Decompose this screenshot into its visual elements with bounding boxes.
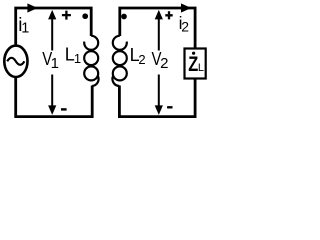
AC source V1 (sine generator) <box>4 46 27 77</box>
inductor L2 (3 turns) <box>112 36 126 86</box>
svg-text:1: 1 <box>74 51 81 66</box>
label V1 <box>42 48 59 72</box>
voltage arrow V1 (up head, shaft, down head) <box>48 10 56 115</box>
label i1 <box>18 15 29 37</box>
polarity dot (primary) <box>82 13 88 19</box>
label L1 <box>65 44 81 66</box>
plus sign (V2) <box>165 11 172 19</box>
load impedance ZL box <box>185 49 206 79</box>
label V2 <box>152 48 169 72</box>
inductor L1 (3 turns) <box>84 36 98 86</box>
wire: primary loop top-left (left wire upper + top wire + drop to L1) <box>16 8 92 45</box>
svg-text:L: L <box>198 62 204 74</box>
wire: secondary loop top (drop from L2 corner + top wire + right wire to load) <box>120 8 195 49</box>
current arrow i1 on top wire <box>27 3 37 12</box>
voltage arrow V2 <box>155 10 163 115</box>
polarity dot (secondary) <box>121 14 127 20</box>
plus sign (V1) <box>62 11 71 20</box>
label i2 <box>179 13 190 34</box>
svg-text:2: 2 <box>138 52 145 67</box>
svg-text:2: 2 <box>160 55 168 72</box>
minus sign (V1) <box>61 108 67 110</box>
label L2 <box>130 45 146 67</box>
svg-text:1: 1 <box>21 21 29 37</box>
svg-text:1: 1 <box>51 55 59 72</box>
current arrow i2 on top wire <box>181 3 191 12</box>
svg-text:2: 2 <box>181 18 189 34</box>
wire: secondary loop bottom <box>119 79 195 117</box>
label ZL (Z-dot with subscript L) <box>188 52 204 76</box>
wire: primary loop bottom (left wire lower + bottom wire + rise to L1 exit) <box>16 78 93 117</box>
minus sign (V2) <box>167 106 172 108</box>
